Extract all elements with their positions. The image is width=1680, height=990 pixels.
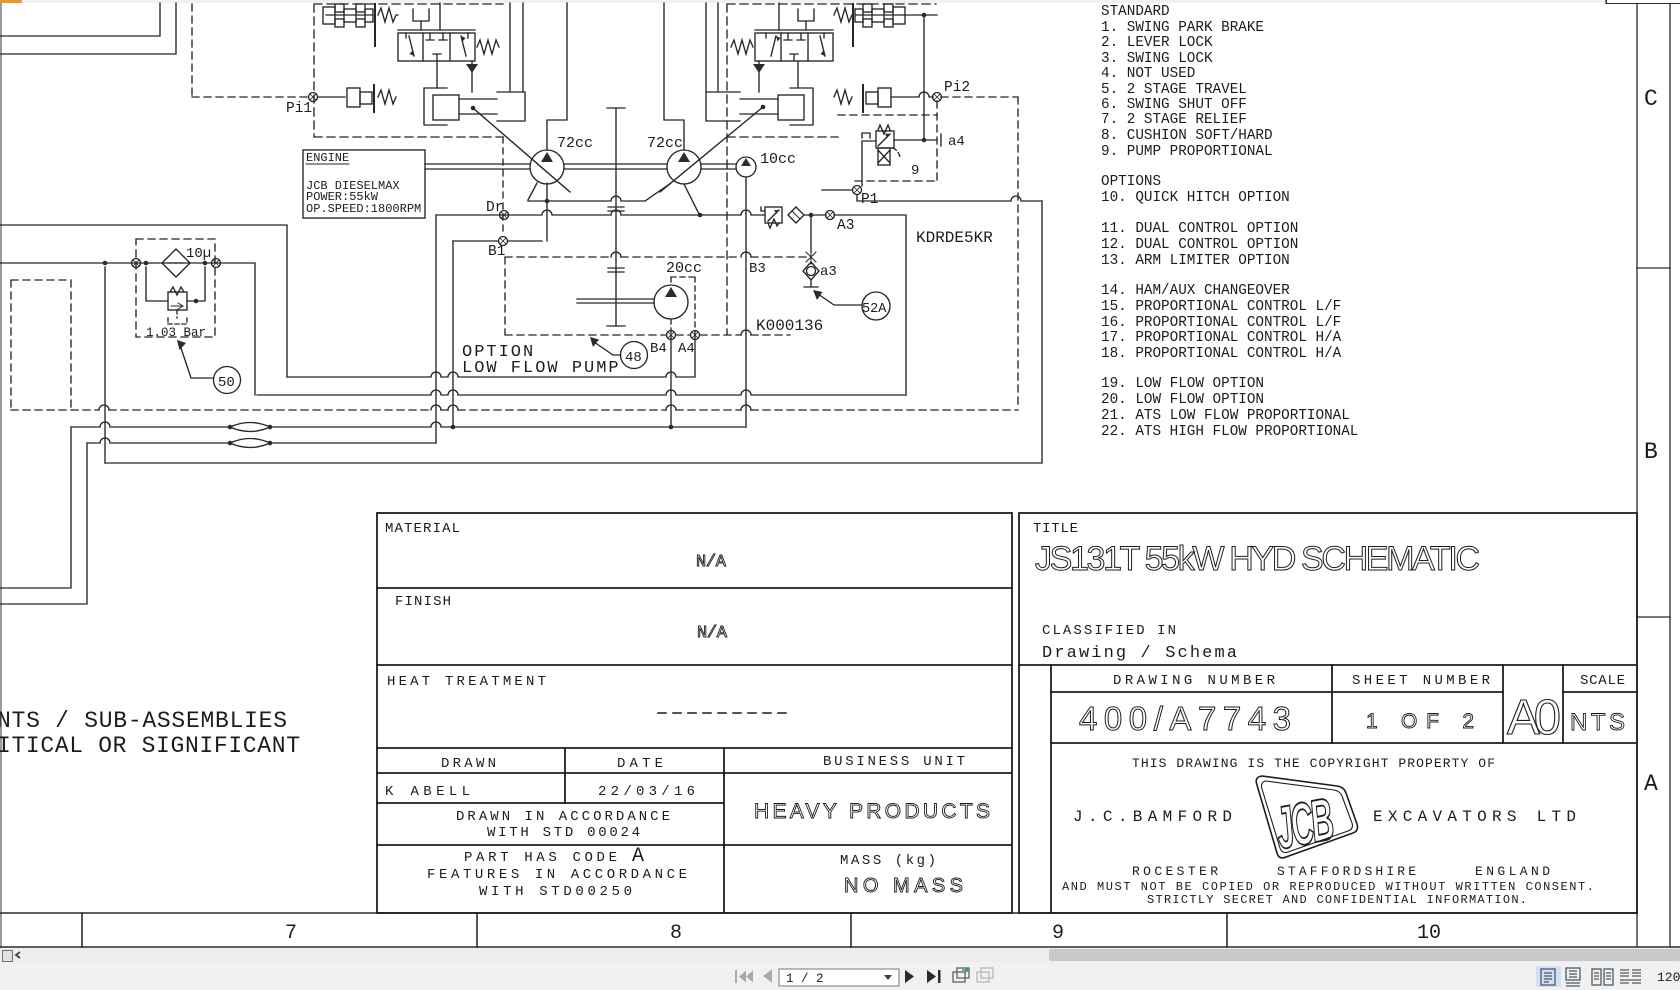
svg-text:19. LOW FLOW OPTION: 19. LOW FLOW OPTION: [1101, 376, 1264, 392]
svg-text:THIS DRAWING IS THE COPYRIGHT: THIS DRAWING IS THE COPYRIGHT PROPERTY O…: [1132, 756, 1495, 771]
wire suction line to filter: [0, 263, 255, 395]
svg-text:2. LEVER LOCK: 2. LEVER LOCK: [1101, 35, 1213, 51]
20cc pump dash-dot port lines: [671, 277, 695, 335]
svg-text:FINISH: FINISH: [395, 594, 451, 610]
pump P2 72cc variable piston pump: [667, 150, 701, 184]
box 9 dashed enclosure: [838, 115, 937, 181]
svg-text:MASS (kg): MASS (kg): [840, 853, 936, 869]
svg-text:Dr: Dr: [486, 200, 503, 216]
svg-text:B: B: [1644, 439, 1658, 465]
svg-text:HEAVY PRODUCTS: HEAVY PRODUCTS: [754, 800, 990, 823]
wire suction header: [0, 225, 287, 377]
regulator 1 horsepower control pistons: [323, 4, 373, 27]
pressure reducing valve on pilot line: [761, 207, 782, 228]
regulator 2 dashed enclosure: [727, 4, 936, 334]
svg-text:PART HAS CODE: PART HAS CODE: [464, 850, 617, 866]
regulator 2 horsepower control pistons: [855, 4, 905, 27]
svg-text:1200: 1200: [1657, 970, 1680, 985]
balloon 50: [214, 367, 241, 394]
regulator 1 spring: [378, 8, 398, 22]
JCB logo: [1256, 776, 1357, 863]
orifice a3 with check: [803, 262, 819, 287]
svg-text:A: A: [1644, 771, 1658, 797]
wire tank return to top edge 2: [0, 3, 176, 54]
left cut-off note text: [0, 708, 300, 759]
wire bus C (y=463): [105, 201, 1042, 463]
wire 10cc pump drain: [745, 177, 747, 427]
svg-text:1 / 2: 1 / 2: [786, 972, 824, 986]
tank symbol T1: [413, 9, 429, 30]
svg-text:ENGINE: ENGINE: [306, 151, 349, 165]
dashed pilot drop x=503: [502, 137, 504, 236]
svg-text:OPTIONS: OPTIONS: [1101, 174, 1161, 190]
svg-text:a4: a4: [948, 134, 965, 150]
svg-text:NO MASS: NO MASS: [844, 875, 963, 897]
copyright block: [1062, 756, 1594, 907]
svg-text:52A: 52A: [862, 302, 887, 317]
sheet top edge at right: [1606, 0, 1680, 4]
svg-text:A: A: [632, 845, 644, 868]
svg-text:SHEET NUMBER: SHEET NUMBER: [1352, 673, 1491, 689]
wire P1 to pilot gallery: [857, 195, 1042, 201]
svg-text:DATE: DATE: [617, 756, 663, 772]
svg-text:JCB: JCB: [1270, 786, 1338, 862]
big outline texts: [696, 540, 1625, 897]
relief solenoid valve 9: [862, 125, 900, 186]
svg-text:SCALE: SCALE: [1580, 673, 1625, 689]
svg-text:72cc: 72cc: [557, 135, 593, 152]
vertical drain from engine corner: [435, 215, 437, 443]
svg-text:ENGLAND: ENGLAND: [1475, 864, 1550, 879]
svg-text:ITICAL OR SIGNIFICANT: ITICAL OR SIGNIFICANT: [0, 733, 300, 759]
engine box: [303, 150, 425, 218]
gear shaft to 20cc pump: [577, 299, 654, 303]
K000136 block outline: [834, 215, 906, 395]
svg-text:OP.SPEED:1800RPM: OP.SPEED:1800RPM: [306, 202, 421, 216]
standard/options list: [1101, 4, 1358, 440]
regulator 2 spring: [834, 8, 852, 22]
node a3 star junction: [806, 250, 816, 264]
link lever to pump2: [660, 107, 763, 192]
regulator 1 lever: [374, 4, 376, 46]
bypass relief valve 1.03 Bar: [146, 267, 205, 324]
svg-text:BUSINESS UNIT: BUSINESS UNIT: [823, 754, 965, 770]
tank symbol T2: [798, 9, 814, 30]
engine text: [306, 151, 421, 216]
svg-text:22/03/16: 22/03/16: [598, 784, 695, 800]
svg-text:ROCESTER: ROCESTER: [1132, 864, 1218, 879]
svg-text:10cc: 10cc: [760, 151, 796, 168]
label OPTION LOW FLOW PUMP: [462, 343, 621, 378]
svg-text:17. PROPORTIONAL CONTROL H/A: 17. PROPORTIONAL CONTROL H/A: [1101, 330, 1342, 346]
svg-text:C: C: [1644, 86, 1658, 112]
node filter outlet: [212, 259, 221, 268]
node filter inlet: [132, 259, 141, 268]
svg-text:P1: P1: [861, 192, 878, 208]
svg-text:72cc: 72cc: [647, 135, 683, 152]
svg-text:9: 9: [1052, 922, 1064, 945]
drive shaft: [425, 164, 736, 169]
svg-text:10µ: 10µ: [186, 246, 211, 262]
KDRDE5KR dashed enclosure: [937, 97, 1018, 409]
svg-text:NTS / SUB-ASSEMBLIES: NTS / SUB-ASSEMBLIES: [0, 708, 287, 734]
svg-text:20. LOW FLOW OPTION: 20. LOW FLOW OPTION: [1101, 392, 1264, 408]
svg-text:K000136: K000136: [756, 317, 823, 335]
node servo2 link: [761, 105, 766, 110]
svg-text:9: 9: [911, 163, 919, 179]
zone numbers: [285, 922, 1441, 945]
wire HP control to junction: [902, 13, 937, 18]
dash-dot boundary left: [11, 280, 71, 409]
node Dr: [500, 211, 509, 220]
node B4 port: [667, 331, 676, 340]
svg-text:A0: A0: [1507, 691, 1561, 745]
balloon 48 leader: [590, 337, 620, 355]
wire pump1 outlet: [547, 3, 567, 150]
svg-text:N/A: N/A: [696, 553, 727, 572]
option low flow pump dashed enclosure: [505, 257, 806, 335]
wire junction drop x=924: [923, 15, 925, 140]
title block small labels: [385, 521, 1625, 869]
wire valve2 pilot supply: [778, 3, 780, 30]
svg-text:K ABELL: K ABELL: [385, 784, 470, 800]
pump case drain collector: [528, 183, 702, 241]
check valve below V2: [753, 61, 765, 92]
svg-text:10. QUICK HITCH OPTION: 10. QUICK HITCH OPTION: [1101, 190, 1290, 206]
svg-text:4. NOT USED: 4. NOT USED: [1101, 66, 1195, 82]
svg-text:400/A7743: 400/A7743: [1079, 700, 1291, 737]
svg-text:DRAWN: DRAWN: [441, 756, 496, 772]
svg-text:12. DUAL CONTROL OPTION: 12. DUAL CONTROL OPTION: [1101, 237, 1298, 253]
svg-text:50: 50: [218, 375, 235, 391]
balloon 52A leader: [813, 290, 862, 305]
balloon 50 leader arrow: [177, 340, 213, 378]
svg-text:B4: B4: [650, 341, 667, 357]
servo piston S1: [424, 88, 525, 125]
heat treatment dashes: [658, 712, 786, 714]
pilot piston unit at Pi1: [347, 85, 396, 112]
balloon 48: [621, 342, 648, 369]
svg-text:STANDARD: STANDARD: [1101, 4, 1170, 20]
junction dots on suction line: [103, 261, 208, 266]
dashed boundary bottom: [11, 409, 1018, 411]
svg-text:EXCAVATORS LTD: EXCAVATORS LTD: [1373, 808, 1576, 826]
link lever to pump1 (variable displacement): [473, 108, 570, 192]
svg-text:8: 8: [670, 922, 682, 945]
regulator 2 lever: [852, 4, 854, 46]
svg-text:7. 2 STAGE RELIEF: 7. 2 STAGE RELIEF: [1101, 112, 1247, 128]
svg-text:B3: B3: [749, 261, 766, 277]
wire strainer drop (x=105): [104, 267, 106, 463]
node B1: [499, 237, 508, 246]
wire tank return to top edge 1: [0, 3, 160, 36]
filter dashed enclosure: [136, 239, 215, 337]
svg-text:6. SWING SHUT OFF: 6. SWING SHUT OFF: [1101, 97, 1247, 113]
svg-text:5. 2 STAGE TRAVEL: 5. 2 STAGE TRAVEL: [1101, 82, 1247, 98]
svg-text:A3: A3: [837, 218, 854, 234]
valve V2 spring (left): [731, 40, 753, 54]
pilot check valve (diamond): [788, 207, 804, 223]
svg-text:KDRDE5KR: KDRDE5KR: [916, 229, 993, 247]
wire valve1 pilot supply: [439, 3, 441, 30]
svg-text:STAFFORDSHIRE: STAFFORDSHIRE: [1277, 864, 1416, 879]
wire a4 port: [894, 134, 941, 146]
svg-text:J.C.BAMFORD: J.C.BAMFORD: [1073, 808, 1232, 826]
node Pi1: [309, 93, 346, 102]
svg-text:Pi1: Pi1: [286, 101, 312, 117]
svg-text:JS131T 55kW HYD SCHEMATIC: JS131T 55kW HYD SCHEMATIC: [1035, 540, 1480, 578]
svg-text:DRAWING NUMBER: DRAWING NUMBER: [1113, 673, 1276, 689]
wire pilot/drain line y=215: [436, 210, 826, 215]
wire B1 line: [453, 241, 542, 427]
wire bus A (y=427): [0, 422, 746, 588]
wire V2 to servo: [797, 61, 799, 88]
svg-text:9. PUMP PROPORTIONAL: 9. PUMP PROPORTIONAL: [1101, 144, 1273, 160]
valve V1 pump regulator spool: [398, 30, 475, 61]
svg-text:18. PROPORTIONAL CONTROL H/A: 18. PROPORTIONAL CONTROL H/A: [1101, 346, 1342, 362]
valve V1 spring: [477, 40, 499, 54]
svg-text:21. ATS LOW FLOW PROPORTIONAL: 21. ATS LOW FLOW PROPORTIONAL: [1101, 408, 1350, 424]
svg-text:7: 7: [285, 922, 297, 945]
zone letters: [1644, 86, 1658, 797]
svg-text:FEATURES IN ACCORDANCE: FEATURES IN ACCORDANCE: [427, 867, 687, 883]
svg-text:1. SWING PARK BRAKE: 1. SWING PARK BRAKE: [1101, 20, 1264, 36]
node A3 junction: [809, 213, 814, 218]
labels B4 A4: [650, 341, 695, 357]
svg-text:CLASSIFIED IN: CLASSIFIED IN: [1042, 623, 1176, 639]
svg-text:3. SWING LOCK: 3. SWING LOCK: [1101, 51, 1213, 67]
svg-text:10: 10: [1417, 922, 1441, 945]
wire pilot line Pi1 (dashed): [192, 4, 309, 97]
node A4 port: [691, 331, 700, 340]
svg-text:15. PROPORTIONAL CONTROL L/F: 15. PROPORTIONAL CONTROL L/F: [1101, 299, 1341, 315]
svg-text:Drawing / Schema: Drawing / Schema: [1042, 644, 1237, 663]
svg-text:STRICTLY SECRET AND CONFIDENTI: STRICTLY SECRET AND CONFIDENTIAL INFORMA…: [1147, 893, 1527, 907]
svg-text:14. HAM/AUX CHANGEOVER: 14. HAM/AUX CHANGEOVER: [1101, 283, 1290, 299]
svg-text:11. DUAL CONTROL OPTION: 11. DUAL CONTROL OPTION: [1101, 221, 1298, 237]
svg-text:48: 48: [625, 350, 642, 366]
wire tank gallery y=395: [257, 390, 906, 395]
pilot piston unit at Pi2: [834, 85, 933, 112]
svg-text:DRAWN IN ACCORDANCE: DRAWN IN ACCORDANCE: [456, 809, 670, 825]
pump P3 10cc gear pump: [736, 157, 756, 177]
svg-text:AND MUST NOT BE COPIED OR REPR: AND MUST NOT BE COPIED OR REPRODUCED WIT…: [1062, 880, 1594, 894]
pump P1 72cc variable piston pump: [530, 150, 564, 184]
wire suction gallery y=377: [287, 335, 695, 377]
sheet bottom border and numbers band: [0, 913, 1680, 947]
svg-text:N/A: N/A: [697, 624, 728, 643]
wire servo1 pilot pair: [510, 3, 523, 92]
svg-text:LOW FLOW PUMP: LOW FLOW PUMP: [462, 359, 621, 378]
svg-text:MATERIAL: MATERIAL: [385, 521, 460, 537]
filter 10 micron (diamond): [162, 249, 190, 277]
servo piston S2: [706, 88, 813, 125]
pump P4 20cc: [654, 285, 688, 319]
svg-text:20cc: 20cc: [666, 260, 702, 277]
wire B4 drain: [670, 335, 672, 427]
gear tower shaft: [607, 108, 625, 326]
title block borders: [377, 513, 1637, 913]
sheet border right zone column: [1637, 4, 1670, 947]
valve V2 pump regulator spool: [755, 30, 833, 61]
svg-text:TITLE: TITLE: [1033, 521, 1078, 537]
svg-text:16. PROPORTIONAL CONTROL L/F: 16. PROPORTIONAL CONTROL L/F: [1101, 315, 1341, 331]
wire a3 drop: [810, 215, 812, 252]
svg-text:a3: a3: [820, 264, 837, 280]
wire servo2 pilot pair: [706, 3, 718, 92]
svg-text:A4: A4: [678, 341, 695, 357]
svg-text:8. CUSHION SOFT/HARD: 8. CUSHION SOFT/HARD: [1101, 128, 1273, 144]
node A3 port: [826, 211, 835, 220]
svg-text:22. ATS HIGH FLOW PROPORTIONAL: 22. ATS HIGH FLOW PROPORTIONAL: [1101, 424, 1358, 440]
svg-text:13. ARM LIMITER OPTION: 13. ARM LIMITER OPTION: [1101, 253, 1290, 269]
balloon 52A: [862, 292, 890, 320]
check valve (filled) below V1: [466, 61, 478, 92]
svg-text:Pi2: Pi2: [944, 80, 970, 96]
svg-text:WITH STD 00024: WITH STD 00024: [487, 825, 640, 841]
node P1: [822, 186, 862, 195]
node servo link: [471, 106, 476, 111]
svg-text:HEAT TREATMENT: HEAT TREATMENT: [387, 674, 546, 690]
svg-text:1.03 Bar: 1.03 Bar: [146, 326, 206, 340]
regulator 1 dashed enclosure: [314, 4, 503, 137]
svg-text:1 OF 2: 1 OF 2: [1366, 710, 1474, 733]
svg-text:B1: B1: [488, 244, 505, 260]
wire bus B (y=443): [0, 438, 436, 604]
svg-text:WITH STD00250: WITH STD00250: [479, 884, 632, 900]
wire pump2 outlet: [664, 3, 684, 150]
svg-text:NTS: NTS: [1570, 709, 1625, 736]
node Pi2: [933, 93, 942, 102]
wire V1 to servo: [436, 61, 438, 88]
